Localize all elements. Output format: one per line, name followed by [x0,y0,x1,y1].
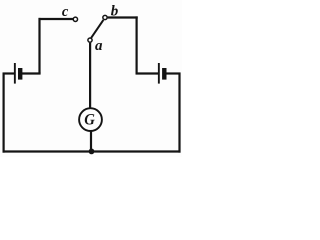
wire: left upper vertical (corner at 39,19 down to battery level) [38,18,40,74]
svg-text:G: G [84,111,95,128]
wire: battery B2 left lead [136,72,159,74]
galvanometer G (circle) [79,108,102,131]
wire: battery B1 right lead [22,72,41,74]
wire: galvanometer down to bottom rail [90,131,92,151]
svg-text:a: a [95,38,103,54]
wire: battery B1 left lead [3,72,15,74]
battery B2 long thin plate (positive) [158,63,160,84]
battery B1 short thick plate (negative) [18,68,22,80]
svg-text:b: b [111,4,119,20]
wire: right lower vertical from bottom rail up to battery B2 [178,73,180,153]
terminal c (open circle) [73,17,77,21]
terminal b (open circle, top of switch blade) [103,15,107,19]
junction dot on bottom rail [89,149,95,155]
wire: left vertical down to bottom rail [2,73,4,153]
wire: top-left horizontal run to terminal c [39,18,74,20]
svg-text:c: c [62,4,69,20]
wire: pivot a down to galvanometer [89,43,91,108]
wire: top-right horizontal run from terminal b [108,16,138,18]
switch pivot a (open circle) [88,38,92,42]
wire: right upper vertical up to terminal b run [136,16,138,74]
wire: battery B2 right lead [166,72,180,74]
battery B1 long thin plate (positive) [14,63,16,84]
switch blade: arm from pivot a to contact b [91,20,103,38]
wire: bottom rail [3,150,181,152]
battery B2 short thick plate (negative) [162,68,166,80]
